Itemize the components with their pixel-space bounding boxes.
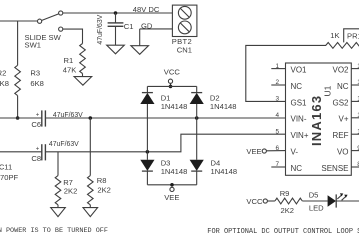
ground under R8: [83, 208, 98, 217]
svg-text:NC: NC: [291, 164, 303, 173]
svg-text:C8: C8: [31, 154, 41, 163]
svg-text:6: 6: [275, 145, 279, 152]
resistor R8 2K2: [89, 118, 91, 176]
pin 2 stub: [271, 84, 285, 86]
svg-text:+: +: [36, 113, 40, 119]
svg-text:INA163: INA163: [309, 95, 324, 146]
svg-text:V-: V-: [291, 148, 299, 157]
svg-text:6K8: 6K8: [30, 79, 44, 88]
preset PR1 wiper box: [344, 29, 359, 43]
resistor R3 6K8: [17, 21, 19, 65]
pin 10 stub (right, cut at edge): [351, 133, 359, 135]
svg-text:VO1: VO1: [291, 66, 308, 75]
diode D2 1N4148: [190, 86, 204, 118]
svg-text:R9: R9: [280, 189, 290, 198]
svg-text:PR1: PR1: [347, 32, 359, 41]
capacitor C6 47uF/63V: [42, 110, 46, 126]
svg-text:SW1: SW1: [25, 40, 41, 49]
VCC rail: [147, 85, 196, 87]
svg-text:VO2: VO2: [332, 66, 349, 75]
svg-text:C6: C6: [31, 120, 41, 129]
svg-text:R8: R8: [97, 176, 107, 185]
svg-text:2: 2: [275, 79, 279, 86]
svg-text:VEE: VEE: [164, 193, 179, 202]
pin 8 stub (right, cut at edge): [351, 166, 359, 168]
svg-text:48V DC: 48V DC: [133, 5, 160, 14]
svg-text:NC: NC: [291, 82, 303, 91]
pin 12 stub (right, cut at edge): [351, 100, 359, 102]
svg-text:R3: R3: [30, 69, 40, 78]
ground GD + wire to CN1: [140, 28, 173, 30]
resistor R7 2K2: [57, 152, 59, 176]
diode D1 1N4148: [140, 86, 154, 151]
svg-text:4: 4: [275, 112, 279, 119]
svg-text:+: +: [36, 146, 40, 152]
capacitor C8 47uF/63V: [42, 144, 46, 160]
wire 48V input from left edge: [0, 20, 37, 22]
svg-text:VCC: VCC: [164, 68, 181, 77]
svg-text:2K2: 2K2: [97, 186, 111, 195]
svg-text:R1: R1: [64, 56, 74, 65]
svg-text:2K2: 2K2: [281, 206, 295, 215]
svg-text:3: 3: [275, 96, 279, 103]
svg-text:REF: REF: [333, 131, 349, 140]
LED D5: [328, 193, 359, 207]
wire line A from left edge to C6: [0, 117, 42, 119]
junction dot D1/D3 on line B: [146, 150, 150, 154]
slide switch SW1: [38, 11, 63, 31]
pin 11 stub (right, cut at edge): [351, 117, 359, 119]
svg-text:GD: GD: [141, 21, 153, 30]
svg-text:VCC: VCC: [246, 197, 263, 206]
svg-text:LED: LED: [309, 204, 324, 213]
svg-text:47K: 47K: [63, 66, 77, 75]
svg-text:VIN-: VIN-: [291, 115, 307, 124]
junction dot C1 tap: [114, 11, 118, 15]
diode D4 1N4148: [190, 118, 204, 185]
svg-text:D5: D5: [309, 190, 319, 199]
svg-text:1N4148: 1N4148: [210, 102, 237, 111]
op-amp U1 INA163 body: [286, 63, 352, 175]
svg-text:V+: V+: [338, 115, 348, 124]
VEE terminal: [170, 183, 174, 187]
svg-text:5: 5: [275, 128, 279, 135]
pin 9 stub (right, cut at edge): [351, 150, 359, 152]
svg-text:47uF/63V: 47uF/63V: [97, 14, 104, 44]
svg-text:VEE: VEE: [246, 147, 261, 156]
svg-text:SENSE: SENSE: [321, 164, 348, 173]
pin 13 stub (right, cut at edge): [351, 84, 359, 86]
svg-text:C11: C11: [0, 163, 12, 172]
svg-text:1N4148: 1N4148: [211, 167, 238, 176]
svg-text:NC: NC: [337, 82, 349, 91]
svg-text:470PF: 470PF: [0, 173, 19, 182]
svg-text:C1: C1: [124, 22, 134, 31]
wire switch to CN1 (48V rail): [63, 12, 173, 14]
wire line A: C6 to chip pin 4: [45, 117, 285, 119]
svg-text:2K2: 2K2: [64, 186, 78, 195]
VEE rail: [147, 184, 196, 186]
svg-text:GS2: GS2: [332, 98, 349, 107]
wire line B from left edge to C8: [0, 151, 42, 153]
junction dot R3/line A: [16, 116, 20, 120]
resistor 1K (gain pot element): [326, 43, 359, 49]
pin 7 stub: [271, 166, 285, 168]
wire VCC to R9: [267, 200, 275, 202]
junction dot D2/D4 on line A: [195, 116, 199, 120]
svg-text:GS1: GS1: [291, 98, 308, 107]
pin 14 stub (right, cut at edge): [351, 68, 359, 70]
pin 1 stub: [271, 68, 285, 70]
svg-text:FOR OPTIONAL DC OUTPUT CONTROL: FOR OPTIONAL DC OUTPUT CONTROL LOOP SIG: [207, 228, 359, 236]
svg-text:1: 1: [275, 63, 279, 70]
svg-text:1N4148: 1N4148: [161, 167, 188, 176]
svg-text:CN1: CN1: [177, 45, 192, 54]
svg-text:N POWER IS TO BE TURNED OFF: N POWER IS TO BE TURNED OFF: [0, 227, 108, 235]
svg-text:6K8: 6K8: [0, 79, 9, 88]
svg-text:VIN+: VIN+: [291, 131, 309, 140]
wire GS1 pin3 to gain pot: [246, 45, 326, 101]
wire line B: C8 to step, up to pin 5: [45, 134, 285, 152]
svg-text:R2: R2: [0, 69, 6, 78]
resistor R9 2K2: [275, 198, 302, 204]
resistor R1 47K: [80, 44, 86, 74]
wire R9 to D5: [302, 200, 327, 202]
junction dot R8 tap: [89, 116, 93, 120]
svg-text:7: 7: [275, 161, 279, 168]
terminal block CN1 PBT2: [172, 5, 197, 36]
diode D3 1N4148: [140, 152, 154, 185]
svg-text:1K: 1K: [330, 31, 339, 40]
wire switch throw2 to R1: [63, 29, 83, 43]
ground under R1: [82, 74, 84, 77]
svg-text:1N4148: 1N4148: [161, 102, 188, 111]
capacitor C1 47uF/63V: [108, 13, 124, 45]
ground under R7: [51, 208, 66, 217]
svg-text:47uF/63V: 47uF/63V: [49, 141, 79, 148]
svg-text:VO: VO: [337, 148, 349, 157]
ground under C1: [107, 45, 125, 54]
